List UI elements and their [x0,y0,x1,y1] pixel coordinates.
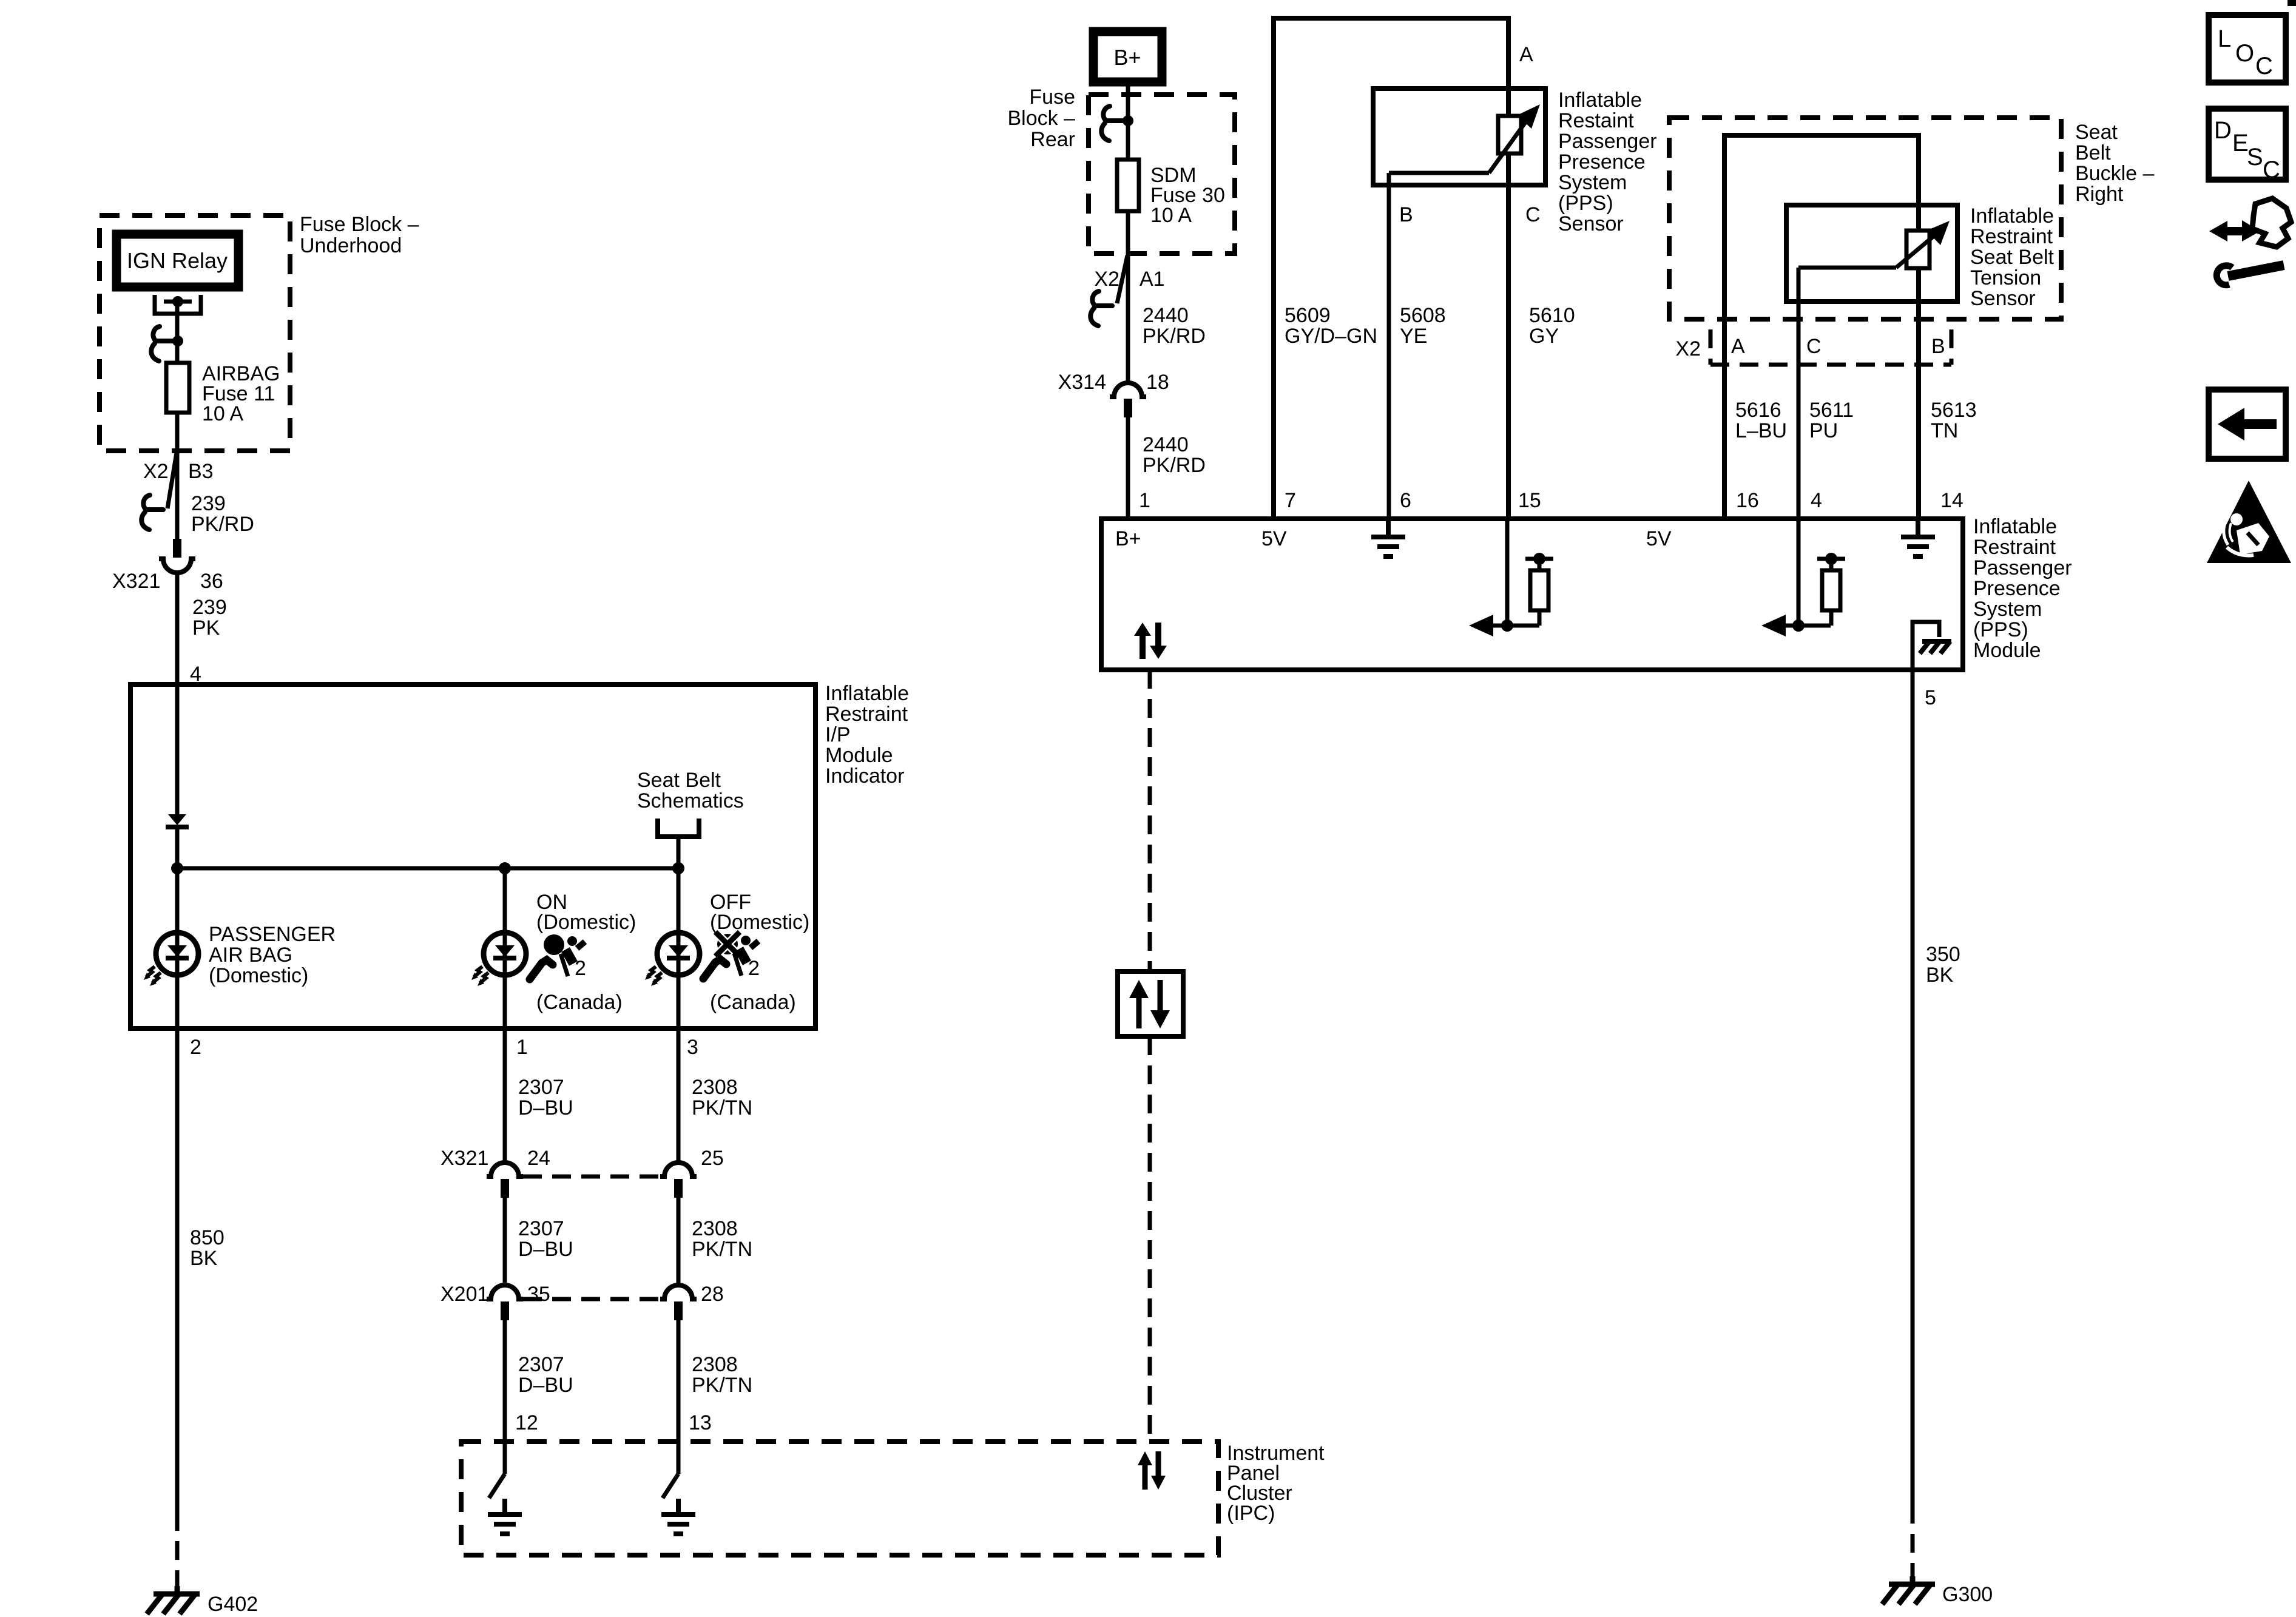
wire serial dashed lower [1148,1036,1152,1442]
svg-text:IGN Relay: IGN Relay [127,248,228,273]
svg-text:5611: 5611 [1809,399,1854,422]
dashed link X201 row [523,1297,660,1301]
svg-text:2308: 2308 [692,1353,738,1376]
svg-text:PK/TN: PK/TN [692,1096,752,1119]
switch in IPC [663,1474,678,1498]
wire ON branch [503,868,507,1028]
svg-text:Restraint: Restraint [825,703,908,726]
svg-text:2307: 2307 [518,1353,564,1376]
svg-text:25: 25 [701,1147,724,1170]
wire dashed to G300 [1911,1505,1915,1576]
svg-text:PK/RD: PK/RD [1143,454,1206,477]
tension sensor box [1786,205,1957,302]
clip at X2 B3 [141,495,163,530]
wire relay to fuse [175,302,180,364]
svg-text:D: D [2214,117,2232,144]
svg-text:14: 14 [1940,489,1963,512]
wire 2307 segment 1 [503,1028,507,1163]
svg-text:Belt: Belt [2075,141,2111,164]
wire B+ to SDM fuse [1126,82,1130,161]
svg-text:Fuse: Fuse [1029,86,1075,109]
wire 2307 segment 2 [503,1198,507,1285]
svg-text:X2: X2 [143,460,169,483]
svg-text:PK/TN: PK/TN [692,1374,752,1397]
wire 850 BK [175,1028,180,1512]
icon DESC box [2209,109,2286,180]
svg-text:(Canada): (Canada) [710,991,796,1014]
serial data arrows boxed [1129,980,1170,1028]
svg-text:1: 1 [1139,489,1150,512]
fuse SDM Fuse 30 [1126,161,1130,385]
svg-text:G300: G300 [1942,1583,1993,1606]
svg-text:X201: X201 [441,1283,488,1306]
connector X321 pin 24 female [487,1163,523,1176]
chassis ground link pin 5 [1913,622,1939,670]
svg-text:B: B [1399,203,1413,226]
relay armature bar [164,300,192,304]
switch in IPC [489,1474,505,1498]
svg-text:16: 16 [1736,489,1759,512]
svg-text:(PPS): (PPS) [1558,192,1613,215]
ground in IPC [488,1499,522,1534]
svg-text:239: 239 [191,492,226,515]
chassis ground internal [1920,641,1951,653]
svg-text:C: C [2255,53,2273,79]
svg-text:Restraint: Restraint [1970,225,2053,248]
bus wire [177,866,678,871]
svg-text:Inflatable: Inflatable [825,682,909,705]
svg-text:Module: Module [1973,639,2041,662]
svg-text:X2: X2 [1675,337,1701,360]
serial data box [1118,971,1183,1036]
svg-text:13: 13 [689,1411,712,1434]
diode D1 [168,814,186,825]
svg-text:2307: 2307 [518,1217,564,1240]
svg-text:3: 3 [687,1036,698,1059]
wire into indicator [175,684,180,814]
svg-text:PK/TN: PK/TN [692,1238,752,1261]
svg-text:24: 24 [527,1147,550,1170]
svg-text:Inflatable: Inflatable [1970,204,2054,228]
svg-text:12: 12 [515,1411,538,1434]
connector X321 pin 25 female [660,1163,697,1176]
svg-text:2307: 2307 [518,1076,564,1099]
node OFF branch [672,862,684,874]
svg-text:5609: 5609 [1285,304,1331,327]
fuse AIRBAG Fuse 11 [175,364,180,540]
clip at relay output [151,326,173,361]
page corner mark [2288,0,2296,6]
svg-text:2308: 2308 [692,1217,738,1240]
svg-text:5: 5 [1925,686,1936,709]
wire 2308 segment 1 [677,1028,681,1163]
wire serial dashed upper [1148,670,1152,971]
wire 2308 segment 3 [677,1320,681,1474]
svg-text:System: System [1973,598,2042,621]
svg-text:15: 15 [1518,489,1541,512]
svg-text:L–BU: L–BU [1735,419,1787,442]
lamp PASSENGER AIR BAG [144,933,198,986]
svg-text:10 A: 10 A [202,402,243,425]
svg-text:28: 28 [701,1283,724,1306]
lamp ON [471,933,526,986]
svg-text:PU: PU [1809,419,1838,442]
svg-text:B: B [1931,335,1945,358]
wire 239 PK to module [175,573,180,684]
svg-text:A: A [1519,43,1533,66]
svg-text:C: C [1525,203,1541,226]
dashed link X321 row [523,1175,660,1179]
svg-text:(Domestic): (Domestic) [536,911,636,934]
svg-text:D–BU: D–BU [518,1374,573,1397]
svg-text:PK/RD: PK/RD [191,513,254,536]
node fuse feed [1123,115,1133,126]
wire C 5611 [1797,268,1801,519]
svg-text:B3: B3 [188,460,214,483]
connector X2 buckle right dashes [1950,329,1954,365]
svg-text:PK: PK [192,616,220,640]
svg-text:Tension: Tension [1970,266,2041,289]
wire 350 BK [1911,670,1915,1505]
connector X201 pin 28 male [674,1301,683,1320]
svg-text:2: 2 [748,957,760,980]
svg-text:AIR BAG: AIR BAG [209,944,292,967]
connector X2 B3 lead [167,453,177,508]
potentiometer PPS [1498,116,1521,154]
wiper arrow tension [1896,234,1937,268]
icon airbag OFF crossed (Canada) [703,932,758,979]
svg-text:Inflatable: Inflatable [1973,515,2057,538]
connector X314 male [1124,399,1132,417]
svg-text:Passenger: Passenger [1558,130,1657,153]
svg-text:5V: 5V [1646,527,1672,550]
svg-text:5608: 5608 [1400,304,1446,327]
connector X2 A1 lead [1117,255,1127,303]
ground at pin 6 [1371,521,1405,556]
connector X201 pin 28 female [660,1285,697,1299]
svg-text:A: A [1731,335,1745,358]
seat belt buckle dashed box [1669,118,2061,319]
icon warning triangle [2207,481,2291,563]
wire 5608 B [1387,173,1391,519]
svg-text:(PPS): (PPS) [1973,618,2028,641]
wire bracket stem [677,837,681,868]
svg-text:Restraint: Restraint [1973,536,2056,559]
svg-text:4: 4 [1811,489,1822,512]
svg-text:B+: B+ [1115,527,1141,550]
PPS module box [1101,519,1963,670]
connector X201 pin 35 female [487,1285,523,1299]
clip at fuse block rear [1101,106,1123,141]
connector X2 buckle left dashes [1709,329,1713,365]
svg-text:E: E [2232,130,2249,157]
connector X321 pin 25 male [674,1179,683,1198]
icon airbag ON (Canada) [530,934,585,979]
svg-text:Seat: Seat [2075,121,2118,144]
ground in IPC [661,1499,695,1534]
svg-text:Seat Belt: Seat Belt [637,769,721,792]
fuse block rear dashed box [1089,95,1235,254]
wire 2307 segment 3 [503,1320,507,1474]
wire 5609 with top link [1274,18,1508,519]
svg-text:C: C [2263,157,2280,183]
svg-text:GY: GY [1529,325,1559,348]
icon hand wrench [2209,198,2291,285]
inflatable restraint I/P module indicator box [130,684,815,1028]
svg-text:350: 350 [1926,943,1960,966]
connector X2 buckle bottom dashes [1710,363,1951,367]
svg-text:B+: B+ [1113,45,1141,70]
wire OFF branch [677,868,681,1028]
node relay output [172,296,183,307]
svg-text:2440: 2440 [1143,433,1189,456]
svg-text:System: System [1558,171,1627,194]
ground G402 [147,1586,200,1614]
svg-text:2: 2 [575,957,586,980]
svg-text:18: 18 [1146,371,1169,394]
serial data arrows in IPC [1138,1451,1166,1490]
svg-text:Block –: Block – [1008,107,1076,130]
connector X201 pin 35 male [501,1301,509,1320]
potentiometer tension [1906,231,1930,268]
svg-text:Right: Right [2075,183,2124,206]
svg-text:A1: A1 [1140,268,1165,291]
clip at X2 A1 [1090,291,1112,326]
svg-text:Sensor: Sensor [1558,212,1624,235]
svg-text:X314: X314 [1058,371,1106,394]
svg-text:X321: X321 [441,1147,488,1170]
connector X321 pin 24 male [501,1179,509,1198]
svg-text:5616: 5616 [1735,399,1781,422]
svg-text:(Domestic): (Domestic) [710,911,809,934]
svg-text:Restaint: Restaint [1558,109,1634,132]
svg-text:X321: X321 [112,570,160,593]
serial data arrows in module [1134,623,1167,659]
node clip junction [172,336,183,346]
svg-text:Presence: Presence [1973,577,2061,600]
svg-text:Inflatable: Inflatable [1558,89,1642,112]
svg-text:YE: YE [1400,325,1427,348]
svg-text:Seat Belt: Seat Belt [1970,246,2055,269]
svg-text:BK: BK [1926,964,1954,987]
PPS sensor box [1373,89,1545,185]
svg-text:S: S [2247,144,2263,170]
wire wiper C [1798,266,1896,270]
wire 2308 segment 2 [677,1198,681,1285]
svg-text:O: O [2235,40,2254,67]
instrument panel cluster dashed box [461,1442,1218,1555]
ground G300 [1882,1576,1935,1604]
resistor branch pin 4 [1761,521,1845,636]
svg-text:PK/RD: PK/RD [1143,325,1206,348]
svg-text:X2: X2 [1094,268,1119,291]
svg-text:850: 850 [190,1226,225,1249]
svg-text:5V: 5V [1261,527,1287,550]
wire dashed to G402 [175,1512,180,1590]
svg-text:35: 35 [527,1283,550,1306]
svg-text:D–BU: D–BU [518,1238,573,1261]
svg-text:G402: G402 [208,1593,258,1616]
resistor branch pin 15 [1469,521,1553,636]
svg-text:7: 7 [1285,489,1296,512]
node diode junction [171,862,183,874]
seat belt schematics bracket [658,819,699,837]
svg-text:Rear: Rear [1030,128,1075,151]
IGN Relay box [116,234,238,287]
svg-text:Buckle –: Buckle – [2075,162,2154,185]
relay contact bracket [155,295,201,314]
svg-text:D–BU: D–BU [518,1096,573,1119]
svg-text:239: 239 [192,596,227,619]
svg-text:Fuse Block –: Fuse Block – [300,213,419,236]
svg-text:(Canada): (Canada) [536,991,623,1014]
svg-text:2: 2 [190,1036,201,1059]
svg-text:2308: 2308 [692,1076,738,1099]
svg-text:Underhood: Underhood [300,234,402,257]
svg-text:6: 6 [1400,489,1411,512]
wire 2440 PK/RD to module [1126,417,1130,519]
icon LOC box [2209,15,2286,83]
node ON branch [499,862,511,874]
svg-text:Module: Module [825,744,893,767]
wiper arrow PPS [1489,119,1528,173]
svg-text:GY/D–GN: GY/D–GN [1285,325,1377,348]
fuse block underhood dashed box [100,215,290,451]
svg-text:TN: TN [1931,419,1958,442]
svg-text:Presence: Presence [1558,150,1646,174]
connector X321 male blade [173,539,181,558]
svg-text:2440: 2440 [1143,304,1189,327]
svg-text:(IPC): (IPC) [1227,1502,1275,1525]
svg-text:BK: BK [190,1247,218,1270]
connector X321 female [159,559,195,573]
svg-text:Sensor: Sensor [1970,287,2036,310]
svg-text:L: L [2218,25,2231,52]
icon back arrow box [2209,390,2286,459]
svg-text:36: 36 [200,570,223,593]
wire A 5616 [1724,135,1919,519]
svg-text:Indicator: Indicator [825,765,904,788]
ground at pin 14 [1901,521,1935,556]
svg-text:1: 1 [516,1036,528,1059]
svg-text:Passenger: Passenger [1973,556,2072,579]
svg-text:10 A: 10 A [1150,204,1192,227]
svg-text:I/P: I/P [825,723,851,746]
svg-text:PASSENGER: PASSENGER [209,923,336,946]
wire wiper B [1389,171,1489,175]
lamp OFF [645,933,700,986]
svg-text:(Domestic): (Domestic) [209,964,308,987]
wire diode to lamp [175,827,180,1028]
svg-text:5610: 5610 [1529,304,1575,327]
svg-text:5613: 5613 [1931,399,1977,422]
svg-text:C: C [1806,335,1822,358]
B+ power box [1093,32,1162,82]
svg-text:Schematics: Schematics [637,789,744,812]
connector X314 female [1110,383,1146,397]
